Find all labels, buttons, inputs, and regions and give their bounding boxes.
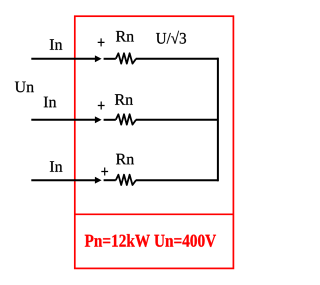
current direction arrow (phase 1) — [95, 55, 102, 62]
current direction arrow (phase 3) — [95, 177, 102, 184]
polarity mark + (phase 3) — [101, 168, 108, 176]
resistor Rn (phase 2) zigzag — [116, 114, 136, 124]
polarity mark + (phase 1) — [98, 38, 105, 46]
label U/√3 (phase voltage) — [156, 31, 186, 44]
label In (phase 1 current) — [50, 39, 63, 50]
label Rn (phase 1 resistor) — [116, 31, 134, 42]
wire: arrow to resistor (phase 3) — [104, 179, 116, 181]
resistor Rn (phase 1) zigzag — [116, 53, 136, 63]
wire: resistor to neutral bus (phase 3) — [136, 179, 219, 181]
wire: phase 2 feed line — [31, 119, 95, 121]
wire: resistor to neutral bus (phase 2) — [136, 119, 219, 121]
divider line of enclosure (red) — [75, 213, 234, 215]
neutral bus wire (right vertical) — [217, 58, 219, 181]
polarity mark + (phase 2) — [98, 102, 105, 110]
label In (phase 2 current) — [44, 97, 57, 108]
load enclosure box (red) — [75, 16, 234, 268]
wire: phase 1 feed line — [31, 58, 95, 60]
wire: resistor to neutral bus (phase 1) — [136, 58, 219, 60]
wire: arrow to resistor (phase 1) — [104, 58, 116, 60]
resistor Rn (phase 3) zigzag — [116, 175, 136, 185]
label Rn (phase 3 resistor) — [116, 154, 134, 165]
wire: phase 3 feed line — [31, 179, 95, 181]
label In (phase 3 current) — [50, 161, 63, 172]
label Un (supply voltage) — [15, 82, 34, 93]
label Rn (phase 2 resistor) — [115, 94, 133, 105]
value label Pn=12kW Un=400V — [85, 234, 216, 247]
wire: arrow to resistor (phase 2) — [104, 119, 116, 121]
current direction arrow (phase 2) — [95, 116, 102, 123]
